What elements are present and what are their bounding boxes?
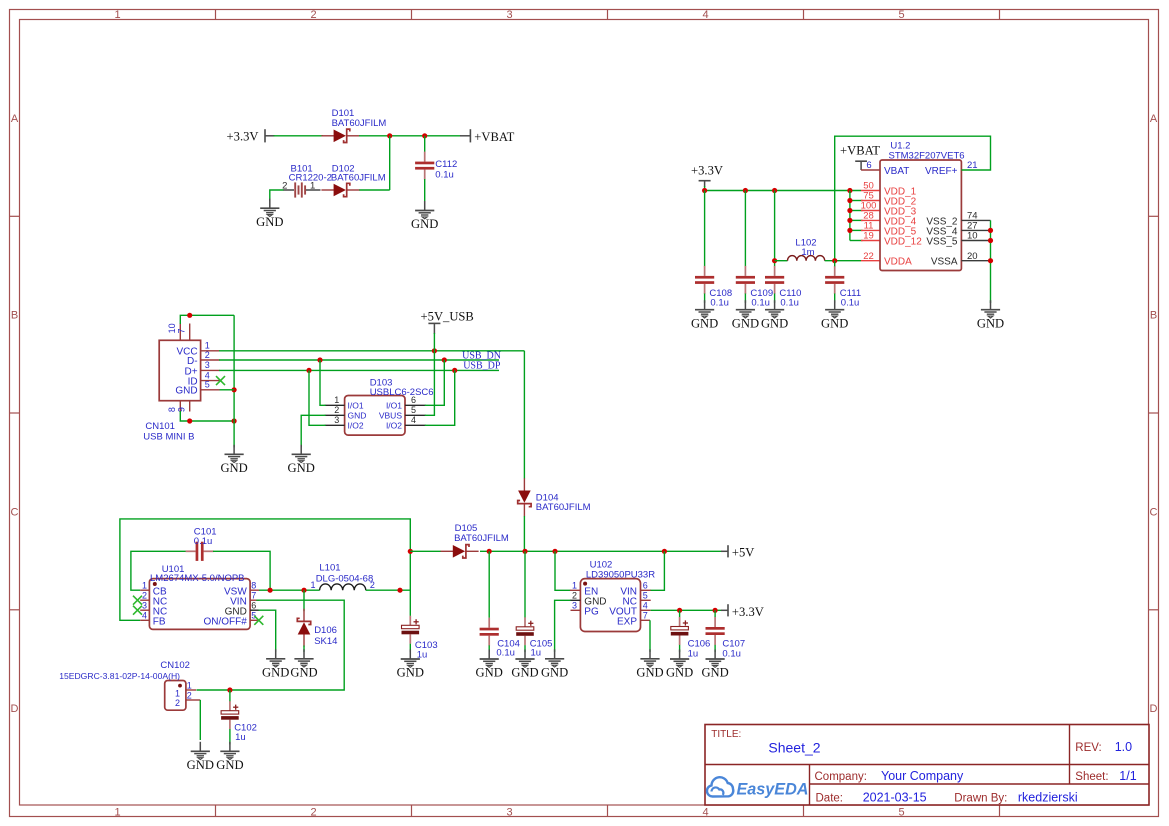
junction +3.3V at C107	[713, 608, 718, 613]
junction USB_DP at D103 pin3	[306, 368, 311, 373]
svg-text:1: 1	[187, 680, 192, 690]
pin stub VDD_2 of U1.2	[861, 200, 880, 202]
wire C110 top drop	[774, 191, 776, 267]
ground below C104	[476, 650, 503, 680]
pin stub 7 of U101	[250, 599, 259, 601]
svg-text:VSS_5: VSS_5	[926, 237, 958, 248]
junction VSS_5 junction	[988, 238, 993, 243]
wire +3.3V to D101 anode	[274, 135, 324, 137]
ground below C112	[411, 201, 438, 231]
pin stub VDD_4 of U1.2	[861, 219, 880, 221]
svg-text:Date:: Date:	[816, 792, 844, 804]
wire VSS bus vertical to GND	[990, 220, 992, 303]
svg-text:BAT60JFILM: BAT60JFILM	[332, 118, 387, 129]
pin stub 4 of CN101	[201, 380, 220, 382]
wire C104 bottom to GND	[488, 645, 490, 652]
junction VSSA junction	[988, 258, 993, 263]
wire C105 top drop	[524, 551, 526, 617]
wire VBAT vertical to D102	[389, 136, 391, 190]
pin stub 9 of CN101	[189, 401, 191, 412]
frame column tick x=803.5 bottom	[803, 805, 805, 817]
svg-text:0.1u: 0.1u	[722, 648, 741, 659]
wire VIN to CN102 input rail	[197, 600, 345, 690]
svg-text:I/O2: I/O2	[348, 421, 364, 431]
frame column tick x=215.5 bottom	[215, 805, 217, 817]
pin stub 3 of U102	[571, 609, 581, 611]
wire C109 top drop	[744, 191, 746, 267]
wire USB_DN line	[219, 359, 499, 361]
pin stub 2 of CN102	[186, 699, 200, 701]
pin stub 1 of D103	[325, 404, 345, 406]
wire USB_DP to D103 pin3	[309, 370, 326, 425]
svg-text:+3.3V: +3.3V	[227, 129, 259, 143]
pin stub VDD_12 of U1.2	[861, 240, 880, 242]
pin stub VDD_5 of U1.2	[861, 229, 880, 231]
junction +5V at U102 VIN	[662, 549, 667, 554]
junction +5V at U102 EN	[552, 549, 557, 554]
wire CN101 GND pin to riser	[220, 389, 235, 391]
pin stub 6 of U101	[250, 609, 259, 611]
svg-text:+5V_USB: +5V_USB	[421, 310, 474, 324]
wire +5V rail	[480, 550, 722, 552]
svg-text:L101: L101	[319, 563, 340, 574]
wire C106 bottom to GND	[679, 645, 681, 652]
wire C108 top drop	[704, 191, 706, 267]
junction +5V at D104/C105	[522, 549, 527, 554]
connector CN101 USB MINI B body	[159, 340, 200, 400]
wire C105 bottom to GND	[524, 645, 526, 652]
svg-text:5: 5	[643, 590, 648, 600]
wire +3.3V rail to VDD_1	[705, 190, 861, 192]
ground below C111	[821, 300, 848, 330]
frame row tick y=216.3 right	[1149, 215, 1159, 217]
svg-text:4: 4	[411, 415, 416, 425]
wire VBUS drop to D104	[523, 351, 525, 479]
svg-text:D: D	[11, 703, 19, 715]
capacitor C102 1u (polarized)	[221, 701, 239, 729]
wire C107 top drop	[714, 610, 716, 617]
power flag +VBAT (at U1.2)	[840, 144, 880, 170]
svg-text:B: B	[1150, 310, 1157, 322]
junction L101 output junction	[397, 588, 402, 593]
wire CN101 shell top to riser	[180, 315, 234, 324]
svg-text:rkedzierski: rkedzierski	[1018, 790, 1078, 804]
power flag +VBAT (top left)	[460, 129, 515, 144]
wire D103 pin4 to USB_DP	[425, 370, 455, 425]
junction CN101 pin5 junction	[232, 387, 237, 392]
wire U102 EXP to ground	[649, 620, 651, 652]
svg-text:2: 2	[334, 405, 339, 415]
junction VDDA/C111 junction	[832, 258, 837, 263]
diode D106 SK14	[297, 609, 310, 647]
capacitor C110 0.1u	[765, 266, 784, 294]
svg-text:1.0: 1.0	[1115, 740, 1132, 754]
pin stub VSS_2 of U1.2	[961, 219, 990, 221]
wire CN102 pin2 to GND	[199, 700, 201, 740]
pin stub 5 of D103	[405, 414, 426, 416]
wire C108 bottom to GND	[704, 294, 706, 303]
pin stub VSSA of U1.2	[961, 260, 990, 262]
wire C104 top drop	[488, 551, 490, 618]
wire VREF+ to VDDA loop	[835, 136, 991, 261]
junction C110/L102 junction	[772, 258, 777, 263]
IC U102 LD39050PU33R body	[580, 579, 640, 632]
power flag +5V_USB	[421, 310, 474, 334]
svg-text:REV:: REV:	[1075, 742, 1101, 754]
wire L101 output to +5V riser	[366, 589, 411, 591]
wire VDD riser to VDD_12 pin	[850, 240, 863, 242]
svg-text:1u: 1u	[531, 648, 542, 659]
junction +3.3V rail at C109	[743, 188, 748, 193]
capacitor C108 0.1u	[695, 266, 714, 294]
svg-text:DLG-0504-68: DLG-0504-68	[316, 574, 374, 585]
svg-text:EXP: EXP	[617, 616, 637, 627]
svg-text:7: 7	[643, 610, 648, 620]
junction +5V node at FB/C103	[408, 549, 413, 554]
svg-text:2: 2	[187, 690, 192, 700]
pin 1 marker dot of CN102	[178, 684, 182, 688]
frame column tick x=999.5 top	[999, 10, 1001, 20]
svg-text:1u: 1u	[235, 732, 246, 743]
svg-text:B: B	[11, 310, 18, 322]
pin stub 3 of CN101	[201, 369, 220, 371]
junction VSS_4 junction	[988, 228, 993, 233]
wire C110 bottom to GND	[774, 294, 776, 303]
ground below CN101	[220, 445, 247, 475]
junction +3.3V rail at C108	[702, 188, 707, 193]
wire U102 GND to ground	[555, 600, 571, 652]
pin stub 2 of CN101	[201, 359, 220, 361]
ground below CN102	[187, 742, 214, 772]
capacitor C106 1u (polarized)	[671, 617, 689, 645]
svg-text:5: 5	[205, 380, 210, 390]
svg-text:0.1u: 0.1u	[751, 298, 770, 309]
svg-text:1: 1	[114, 807, 120, 819]
junction VBUS at +5V_USB flag	[432, 348, 437, 353]
svg-text:TITLE:: TITLE:	[711, 729, 741, 740]
junction USB_DN at D103 pin1	[317, 357, 322, 362]
svg-text:LD39050PU33R: LD39050PU33R	[586, 569, 655, 580]
wire CB pin to C101	[131, 551, 186, 590]
wire VDD riser to VDD_3 pin	[850, 210, 863, 212]
wire +5V riser to D105 anode	[410, 550, 441, 552]
junction +3.3V at C106	[677, 608, 682, 613]
wire +5V_USB flag drop	[433, 333, 435, 351]
ground below D103	[288, 445, 315, 475]
svg-text:6: 6	[251, 600, 256, 610]
wire C111 bottom to GND	[834, 294, 836, 303]
svg-text:2: 2	[310, 9, 316, 21]
junction VSW at C101	[268, 588, 273, 593]
wire C102 bottom to GND	[229, 729, 231, 744]
svg-text:ON/OFF#: ON/OFF#	[203, 616, 247, 627]
no-connect on U101 pin3	[133, 606, 142, 615]
battery B101 CR1220-2	[283, 182, 321, 197]
pin stub VDDA of U1.2	[861, 260, 880, 262]
wire USB_DN to D103 pin1	[320, 360, 326, 405]
ground below B101	[256, 199, 283, 229]
frame row tick y=609.8 left	[10, 609, 20, 611]
diode D101 BAT60JFILM	[321, 129, 359, 142]
svg-text:Your Company: Your Company	[881, 769, 964, 783]
power flag +3.3V (U102 output)	[721, 604, 764, 619]
ground below C109	[732, 300, 759, 330]
frame column tick x=803.5 top	[803, 10, 805, 20]
frame column tick x=215.5 top	[215, 10, 217, 20]
power flag +3.3V (top left)	[227, 129, 275, 143]
wire VDD riser vertical	[849, 191, 851, 241]
ground below C107	[701, 650, 728, 680]
svg-text:1u: 1u	[688, 648, 699, 659]
svg-text:3: 3	[506, 9, 512, 21]
svg-text:BAT60JFILM: BAT60JFILM	[331, 173, 386, 184]
junction VDD riser at VDD_2	[847, 198, 852, 203]
svg-text:7: 7	[251, 590, 256, 600]
pin stub 2 of U101	[140, 599, 149, 601]
frame row tick y=609.8 right	[1149, 609, 1159, 611]
svg-text:+5V: +5V	[732, 545, 755, 559]
IC U101 LM2674MX-5.0/NOPB body	[149, 579, 250, 630]
wire VDD riser to VDD_2 pin	[850, 200, 863, 202]
svg-text:VDD_12: VDD_12	[884, 237, 922, 248]
IC U1.2 STM32F207VET6 body	[880, 160, 961, 271]
pin stub 6 of U102	[641, 589, 651, 591]
junction VDD riser at VDD_3	[847, 208, 852, 213]
pin stub 8 of CN101	[179, 401, 181, 412]
svg-text:0.1u: 0.1u	[780, 298, 799, 309]
diode D102 BAT60JFILM	[321, 183, 359, 196]
wire FB feedback loop	[120, 519, 410, 620]
svg-text:GND: GND	[175, 386, 197, 397]
junction VBAT node at C112	[422, 133, 427, 138]
pin stub 5 of U101	[250, 619, 259, 621]
ground below C110	[761, 300, 788, 330]
wire C112 bottom to GND	[424, 179, 426, 201]
frame column tick x=411.5 top	[411, 10, 413, 20]
svg-text:3: 3	[205, 360, 210, 370]
pin stub 4 of D103	[405, 424, 426, 426]
junction VBAT node at D101/D102	[387, 133, 392, 138]
junction VDD riser at VDD_4	[847, 218, 852, 223]
svg-text:8: 8	[251, 580, 256, 590]
IC D103 USBLC6-2SC6 body	[345, 396, 405, 436]
ground below U102 EXP	[636, 649, 663, 679]
svg-text:+VBAT: +VBAT	[474, 130, 514, 144]
svg-text:0.1u: 0.1u	[435, 169, 454, 180]
wire VBUS net VCC line	[219, 350, 524, 352]
wire L102 to VDDA pin	[825, 260, 861, 262]
svg-text:4: 4	[702, 807, 708, 819]
svg-text:STM32F207VET6: STM32F207VET6	[889, 150, 965, 161]
svg-text:I/O1: I/O1	[386, 401, 402, 411]
no-connect on U101 pin2	[133, 596, 142, 605]
pin stub 3 of D103	[325, 424, 345, 426]
wire C106 top drop	[679, 610, 681, 617]
capacitor C111 0.1u	[825, 266, 844, 294]
svg-text:I/O2: I/O2	[386, 421, 402, 431]
pin stub 1 of U101	[140, 589, 149, 591]
wire +5V to U102 VIN	[650, 551, 664, 590]
capacitor C109 0.1u	[736, 266, 755, 294]
svg-text:VREF+: VREF+	[925, 166, 958, 177]
wire C103 bottom to GND	[409, 644, 411, 652]
svg-text:VDDA: VDDA	[884, 257, 912, 268]
frame row tick y=413 left	[10, 412, 20, 414]
svg-text:6: 6	[866, 160, 871, 171]
pin stub VDD_3 of U1.2	[861, 210, 880, 212]
junction VDD riser at VDD_5	[847, 228, 852, 233]
no-connect on U101 pin5 ON/OFF#	[254, 616, 263, 625]
pin stub 7 of CN101	[189, 324, 191, 341]
no-connect on CN101 ID pin	[216, 376, 225, 385]
frame row tick y=216.3 left	[10, 215, 20, 217]
pin stub VDD_1 of U1.2	[861, 190, 880, 192]
wire C112 top	[424, 136, 426, 152]
wire D103 pin5 to VBUS	[425, 351, 435, 416]
svg-text:15EDGRC-3.81-02P-14-00A(H): 15EDGRC-3.81-02P-14-00A(H)	[59, 671, 180, 681]
pin stub 1 of CN102	[186, 689, 196, 691]
ground below C106	[666, 650, 693, 680]
svg-text:1: 1	[142, 580, 147, 590]
svg-text:LM2674MX-5.0/NOPB: LM2674MX-5.0/NOPB	[150, 573, 245, 584]
junction +3.3V rail at C110	[772, 188, 777, 193]
wire VDD riser to VDD_4 pin	[850, 219, 863, 221]
svg-text:USB_DP: USB_DP	[463, 360, 501, 371]
ground below C105	[511, 650, 538, 680]
svg-text:0.1u: 0.1u	[841, 298, 860, 309]
wire C109 bottom to GND	[744, 294, 746, 303]
wire VDD riser to VDD_5 pin	[850, 229, 863, 231]
svg-text:4: 4	[643, 600, 648, 610]
junction USB_DN at D103 pin6	[442, 357, 447, 362]
svg-text:BAT60JFILM: BAT60JFILM	[536, 502, 591, 513]
svg-text:3: 3	[142, 600, 147, 610]
svg-text:0.1u: 0.1u	[194, 536, 213, 547]
pin 1 marker dot of U102	[583, 582, 587, 586]
diode D104 BAT60JFILM	[518, 478, 531, 516]
svg-text:CN101: CN101	[145, 421, 175, 432]
svg-text:D106: D106	[314, 625, 337, 636]
svg-text:3: 3	[334, 415, 339, 425]
svg-text:SK14: SK14	[314, 636, 337, 647]
pin stub 1 of CN101	[201, 350, 220, 352]
junction +3.3V rail at VDD riser	[847, 188, 852, 193]
svg-text:7: 7	[177, 328, 187, 333]
inductor L102 1m	[788, 256, 825, 261]
wire U101 GND pin to ground	[259, 610, 276, 652]
EasyEDA logo	[707, 777, 809, 798]
svg-text:+3.3V: +3.3V	[691, 163, 723, 177]
svg-text:1/1: 1/1	[1119, 769, 1136, 783]
svg-text:5: 5	[898, 807, 904, 819]
svg-text:22: 22	[863, 251, 874, 262]
svg-text:6: 6	[411, 395, 416, 405]
wire D102 cathode to VBAT vertical	[359, 189, 390, 191]
junction +5V at C104	[487, 549, 492, 554]
svg-text:CR1220-2: CR1220-2	[289, 173, 332, 184]
svg-text:D-: D-	[187, 356, 198, 367]
wire D103 pin2 to GND	[301, 415, 325, 447]
svg-text:9: 9	[177, 407, 187, 412]
ground below C103	[397, 650, 424, 680]
frame column tick x=607.5 top	[607, 10, 609, 20]
pin stub 5 of CN101	[201, 389, 220, 391]
svg-text:5: 5	[411, 405, 416, 415]
svg-text:Sheet_2: Sheet_2	[768, 740, 820, 756]
pin stub VSS_5 of U1.2	[961, 240, 990, 242]
ground below U101 GND pin	[262, 649, 289, 679]
wire +5V riser / C103 top	[409, 551, 411, 616]
pin stub 6 of D103	[405, 404, 426, 406]
capacitor C105 1u (polarized)	[516, 617, 534, 645]
wire C102 top	[229, 690, 231, 702]
svg-text:Sheet:: Sheet:	[1075, 771, 1108, 783]
pin stub 4 of U102	[641, 609, 651, 611]
svg-text:VBUS: VBUS	[379, 411, 402, 421]
junction input rail at C102	[227, 687, 232, 692]
svg-text:C: C	[11, 506, 19, 518]
svg-text:3: 3	[506, 807, 512, 819]
wire C111 top drop	[834, 261, 836, 267]
svg-text:0.1u: 0.1u	[710, 298, 729, 309]
title block outline	[705, 725, 1149, 806]
svg-text:1: 1	[175, 688, 180, 698]
diode D105 BAT60JFILM	[441, 545, 479, 558]
wire C107 bottom to GND	[714, 645, 716, 652]
pin stub 8 of U101	[250, 589, 259, 591]
pin stub VSS_4 of U1.2	[961, 229, 990, 231]
frame column tick x=411.5 bottom	[411, 805, 413, 817]
power flag +3.3V (at U1.2)	[691, 163, 723, 187]
svg-text:3: 3	[572, 600, 577, 610]
svg-text:5: 5	[898, 9, 904, 21]
svg-text:0.1u: 0.1u	[496, 648, 515, 659]
pin stub 1 of U102	[570, 589, 581, 591]
svg-text:A: A	[11, 113, 19, 125]
junction CN101 pin9 junction	[187, 418, 192, 423]
svg-text:EasyEDA: EasyEDA	[737, 781, 809, 799]
wire D104 cathode to +5V rail	[523, 516, 525, 551]
svg-text:2: 2	[572, 590, 577, 600]
wire D106 anode to GND	[303, 646, 305, 652]
svg-text:4: 4	[702, 9, 708, 21]
svg-text:2021-03-15: 2021-03-15	[863, 790, 927, 804]
wire D101 cathode to +VBAT flag	[359, 135, 461, 137]
pin stub 3 of U101	[140, 609, 149, 611]
junction CN101 pin7 junction	[187, 313, 192, 318]
junction VSW at D106	[301, 588, 306, 593]
svg-text:2: 2	[175, 698, 180, 708]
ground below D106	[290, 649, 317, 679]
svg-text:USBLC6-2SC6: USBLC6-2SC6	[370, 387, 434, 398]
junction shell riser bottom junction	[232, 418, 237, 423]
wire +5V to U102 EN	[555, 551, 571, 590]
svg-text:1: 1	[572, 580, 577, 590]
svg-text:PG: PG	[584, 606, 599, 617]
svg-text:2: 2	[205, 350, 210, 360]
svg-text:6: 6	[643, 580, 648, 590]
svg-text:I/O1: I/O1	[348, 401, 364, 411]
svg-text:Company:: Company:	[815, 771, 867, 783]
inductor L101 DLG-0504-68	[320, 584, 366, 590]
junction USB_DP at D103 pin4	[452, 368, 457, 373]
pin stub 5 of U102	[641, 599, 651, 601]
svg-text:19: 19	[863, 231, 874, 242]
svg-text:2: 2	[142, 590, 147, 600]
svg-text:D: D	[1150, 703, 1158, 715]
pin stub 4 of U101	[140, 619, 149, 621]
pin stub VBAT of U1.2	[861, 169, 880, 171]
